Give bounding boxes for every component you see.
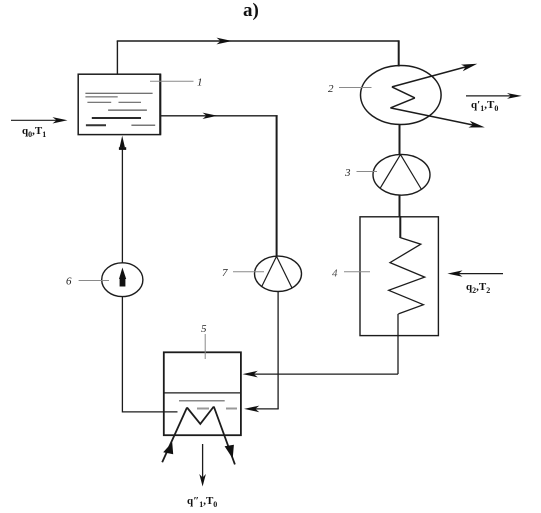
vessel 5 boil zigzag left leg (162, 408, 187, 463)
pump 3 circle (373, 154, 430, 195)
wire: coil outlet down from evaporator 4 (397, 314, 399, 374)
vessel 1 interior line row5 (thick) (92, 117, 141, 119)
condenser 2 upper out-arrow line (392, 66, 469, 87)
arrowhead heat out down (199, 474, 206, 487)
vessel 1 interior line row4 (108, 109, 147, 111)
pump 3 triangle right leg (401, 155, 422, 190)
svg-text:5: 5 (201, 323, 207, 335)
vessel 1 interior line row6b (131, 124, 155, 126)
wire: condenser 2 to pump 3 (399, 124, 401, 155)
svg-text:a): a) (243, 0, 259, 21)
vessel 5 boil zigzag M (187, 407, 214, 424)
arrowhead into vessel 5 upper inlet (243, 371, 258, 378)
vessel 5 interior gray line (179, 400, 225, 402)
heat out arrow line q'1,T0 (466, 95, 516, 97)
arrowhead into vessel 1 bottom (120, 136, 125, 148)
heat in arrow line q2,T2 (453, 273, 503, 275)
condenser 2 lower arrowhead (468, 121, 484, 128)
label 3 leader (357, 171, 378, 173)
pump 6 solid flow arrow tail (120, 279, 126, 287)
pump 7 triangle right leg (277, 256, 293, 288)
condenser 2 lower out-arrow line (390, 108, 476, 126)
wire: top horizontal run to condenser 2 (117, 40, 399, 42)
vessel 1 interior line row3a (87, 101, 111, 103)
vessel 5 boil zigzag right leg (214, 407, 235, 465)
label 4 leader (344, 271, 370, 273)
arrowhead q2,T2 (points left) (447, 270, 462, 276)
svg-text:4: 4 (332, 268, 338, 280)
evaporator 4 coil zigzag (389, 238, 425, 314)
arrowhead q'1,T0 (507, 93, 522, 99)
svg-text:7: 7 (222, 267, 228, 279)
vessel 5 dashed level line segment a (197, 408, 209, 410)
inlet arrow line q0,T1 (11, 119, 62, 121)
wire: pump 7 down (277, 292, 279, 409)
wire: absorber 1 top riser (116, 41, 118, 75)
label 2 leader (339, 87, 372, 89)
condenser 2 zigzag upper segment (392, 87, 415, 98)
arrowhead on vessel 1 outlet (203, 113, 218, 119)
inlet arrowhead q0,T1 (53, 117, 68, 123)
pump 6 solid flow arrow (119, 268, 126, 280)
wire: pump 6 up to vessel 1 (121, 147, 123, 263)
heat out line down (202, 444, 204, 478)
wire: run left to vessel 5 upper inlet (252, 373, 398, 375)
svg-text:3: 3 (344, 167, 351, 179)
wire: run left to vessel 5 lower inlet (252, 408, 279, 410)
arrowhead on top wire (flow right) (217, 38, 233, 45)
label 7 leader (233, 271, 264, 273)
vessel 1 interior line row1 (85, 92, 152, 94)
vessel 5 (generator) (164, 352, 241, 435)
wire: drop to pump 7 (276, 115, 278, 256)
label 5 leader (204, 334, 206, 359)
pump 6 circle (102, 263, 143, 297)
svg-text:1: 1 (197, 77, 203, 89)
evaporator 4 box (360, 217, 438, 336)
vessel 1 interior line row3b (119, 101, 142, 103)
vessel 1 (absorber) (78, 74, 160, 134)
wire: vessel 5 left outlet (122, 411, 177, 413)
pump 3 triangle left leg (380, 155, 401, 189)
arrowhead into vessel 5 lower inlet (244, 406, 259, 413)
vessel 1 interior line row6a (86, 124, 106, 126)
vessel 1 interior line row2 (85, 96, 117, 98)
vessel 5 liquid level separator (164, 392, 241, 394)
wire: feed into coil of 4 (399, 216, 401, 238)
pump 7 triangle left leg (262, 256, 277, 287)
vessel 5 dashed level line segment b (226, 408, 237, 410)
condenser 2 zigzag lower segment (390, 98, 415, 108)
bold arrowhead lower-left (points up-right) (163, 442, 173, 454)
condenser 2 ellipse (361, 66, 442, 125)
wire: drop into condenser 2 (398, 40, 400, 66)
label 1 leader (150, 80, 194, 82)
wire: up to pump 6 (121, 297, 123, 413)
wire: vessel 1 outlet to pump 7 (horizontal) (160, 115, 277, 117)
label 6 leader (79, 280, 109, 282)
condenser 2 upper arrowhead (461, 64, 477, 71)
wire: pump 3 to evaporator 4 (399, 195, 401, 217)
bold arrowhead lower-right (points down-right) (225, 445, 234, 459)
svg-text:q′1,T0: q′1,T0 (471, 99, 498, 113)
pump 7 circle (255, 256, 302, 291)
svg-text:2: 2 (328, 83, 334, 95)
svg-text:6: 6 (66, 276, 72, 288)
vessel 1 right edge (thick) (159, 74, 161, 134)
